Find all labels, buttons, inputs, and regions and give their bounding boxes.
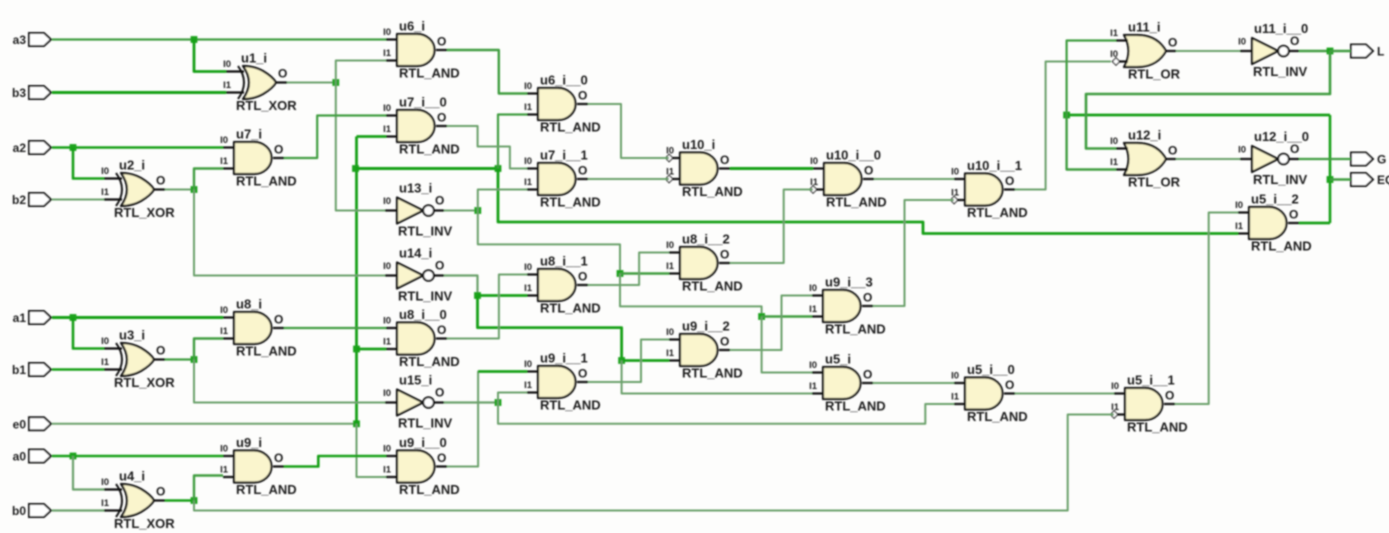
wire u10_i__1.O to u11_i.I0 — [1015, 62, 1111, 190]
svg-text:b3: b3 — [12, 86, 26, 100]
svg-text:e0: e0 — [13, 417, 27, 431]
svg-text:I0: I0 — [220, 135, 228, 146]
svg-text:I0: I0 — [1238, 37, 1246, 48]
junction u14 chain u8_i__1.I1 — [474, 292, 481, 299]
svg-text:I0: I0 — [383, 27, 391, 38]
wire u9_i__1.O to u9_i__2.I0 — [588, 340, 669, 383]
svg-text:O: O — [1168, 36, 1177, 50]
svg-text:u10_i: u10_i — [682, 137, 715, 152]
svg-text:O: O — [437, 35, 446, 49]
svg-text:RTL_AND: RTL_AND — [967, 409, 1028, 424]
svg-text:I0: I0 — [666, 327, 674, 338]
svg-text:u7_i__1: u7_i__1 — [540, 148, 588, 163]
svg-text:O: O — [274, 143, 283, 157]
wire u4_i.O long south run to u5_i__1.I1 — [194, 415, 1114, 511]
junction u13 chain u9_i__3.I1 — [758, 313, 765, 320]
svg-text:u5_i: u5_i — [825, 352, 851, 367]
wire u13 chain to u5_i.I0 — [762, 317, 812, 373]
wire EQ net up to u11_i.I1 — [1067, 41, 1116, 116]
svg-text:I1: I1 — [101, 498, 110, 509]
wire trunk lower vertical to u9_i__0.I1 — [357, 424, 387, 477]
svg-text:u5_i__0: u5_i__0 — [967, 362, 1015, 377]
and gate u5_i__2 — [1235, 192, 1312, 254]
svg-text:O: O — [720, 335, 729, 349]
svg-text:I0: I0 — [383, 103, 391, 114]
and gate u9_i__3 — [809, 275, 886, 337]
wire u4_i.O up to u9_i.I1 — [194, 476, 223, 501]
svg-text:O: O — [435, 194, 444, 208]
svg-text:RTL_AND: RTL_AND — [236, 482, 297, 497]
svg-text:u11_i__0: u11_i__0 — [1254, 21, 1308, 36]
svg-text:O: O — [1168, 144, 1177, 158]
svg-text:I1: I1 — [101, 357, 110, 368]
and gate u6_i__0 — [524, 73, 601, 135]
svg-text:I1: I1 — [666, 167, 675, 178]
svg-text:RTL_AND: RTL_AND — [1127, 420, 1188, 435]
svg-text:I0: I0 — [951, 167, 959, 178]
svg-text:u8_i__0: u8_i__0 — [399, 307, 447, 322]
wire L loopback to u12_i.I0 — [1086, 51, 1330, 149]
svg-text:u9_i__1: u9_i__1 — [540, 351, 588, 366]
wire b2 to u2_i.I1 — [52, 199, 104, 201]
svg-text:u9_i: u9_i — [236, 435, 262, 450]
svg-text:O: O — [437, 451, 446, 465]
svg-text:u11_i: u11_i — [1128, 20, 1161, 35]
wire u2_i.O down to u14_i.I0 — [194, 190, 385, 276]
svg-text:u6_i__0: u6_i__0 — [540, 73, 588, 88]
wire u13_i.O up to u7_i__1.I1 — [478, 190, 527, 211]
and gate u9_i__2 — [666, 319, 743, 381]
svg-text:I1: I1 — [101, 187, 110, 198]
xor gate u3_i (a1 XOR b1) — [101, 328, 175, 391]
inverter u15_i — [383, 373, 452, 431]
wire u6_i__0.O to u10_i.I0 — [588, 104, 669, 158]
svg-text:RTL_XOR: RTL_XOR — [114, 205, 175, 220]
junction u13_i.O — [474, 207, 481, 214]
and gate u8_i__1 — [524, 254, 601, 316]
svg-text:b1: b1 — [12, 363, 26, 377]
wire u5_i.O to u5_i__0.I0 — [873, 382, 954, 384]
wire to L port — [1330, 50, 1351, 52]
svg-text:RTL_INV: RTL_INV — [398, 224, 453, 239]
svg-text:I0: I0 — [383, 388, 391, 399]
svg-text:I1: I1 — [383, 124, 392, 135]
svg-text:I1: I1 — [220, 465, 229, 476]
and gate u10_i — [665, 137, 742, 199]
junction u1_i.O — [332, 79, 339, 86]
svg-text:RTL_INV: RTL_INV — [398, 416, 453, 431]
svg-text:O: O — [1290, 142, 1299, 156]
and gate u7_i__0 — [383, 95, 460, 157]
svg-text:O: O — [1290, 34, 1299, 48]
svg-text:RTL_XOR: RTL_XOR — [236, 98, 297, 113]
svg-text:RTL_AND: RTL_AND — [236, 344, 297, 359]
svg-text:I0: I0 — [383, 261, 391, 272]
svg-text:I0: I0 — [1235, 200, 1243, 211]
junction EQ net split — [1063, 112, 1070, 119]
svg-text:u7_i__0: u7_i__0 — [399, 95, 447, 110]
svg-text:RTL_AND: RTL_AND — [236, 174, 297, 189]
svg-text:u9_i__2: u9_i__2 — [682, 319, 730, 334]
svg-text:O: O — [578, 164, 587, 178]
junction a2 branch — [70, 144, 77, 151]
svg-text:I1: I1 — [383, 337, 392, 348]
svg-text:RTL_AND: RTL_AND — [540, 120, 601, 135]
wire u5_i__2.O east — [1299, 222, 1330, 225]
wire a0 to u9_i.I0 — [52, 455, 223, 458]
and gate u9_i__0 — [383, 435, 460, 497]
wire u8_i__1.O to u8_i__2.I0 — [588, 253, 669, 286]
and gate u5_i — [809, 352, 886, 414]
svg-text:u6_i: u6_i — [399, 19, 425, 34]
wire u11_i.O to u11_i__0.I0 — [1176, 50, 1240, 52]
wire u14 chain to u8_i__1.I1 — [478, 294, 528, 297]
junction u15_i.O — [495, 399, 502, 406]
output port EQ — [1351, 173, 1389, 187]
svg-text:I1: I1 — [524, 177, 533, 188]
inverter u11_i__0 — [1238, 21, 1308, 79]
output port L — [1351, 45, 1384, 59]
svg-text:b0: b0 — [12, 504, 26, 518]
wire u10_i.O to u10_i__0.I0 — [730, 167, 813, 170]
junction u4_i.O — [191, 497, 198, 504]
svg-text:I0: I0 — [383, 196, 391, 207]
wire u2_i.O up to u7_i.I1 — [194, 169, 223, 190]
junction trunk east — [495, 165, 502, 172]
junction a3 branch — [191, 36, 198, 43]
svg-text:I0: I0 — [666, 146, 674, 157]
wire u9_i__1.I0 thick segment — [478, 370, 527, 373]
input port e0 — [13, 417, 51, 431]
wire u9_i__3.O to u10_i__1.I1 — [873, 200, 954, 306]
svg-text:I1: I1 — [666, 261, 675, 272]
svg-text:I0: I0 — [809, 360, 817, 371]
svg-text:I0: I0 — [383, 444, 391, 455]
wire u2_i.O to junction — [165, 189, 194, 191]
svg-text:u5_i__1: u5_i__1 — [1127, 373, 1175, 388]
wire EQ net down to u12_i.I1 — [1067, 115, 1116, 170]
svg-text:u4_i: u4_i — [119, 469, 145, 484]
svg-text:I1: I1 — [1111, 402, 1120, 413]
wire e0 to equality trunk — [52, 423, 357, 425]
svg-text:u10_i__0: u10_i__0 — [826, 148, 881, 163]
xor gate u2_i (a2 XOR b2) — [101, 158, 175, 221]
svg-text:u13_i: u13_i — [399, 181, 432, 196]
svg-text:I1: I1 — [951, 188, 960, 199]
and gate u8_i — [220, 297, 297, 359]
wire u7_i__0.O to u7_i__1.I0 — [447, 126, 527, 169]
wire u15_i.O to u5_i__0.I1 — [498, 403, 954, 424]
svg-text:O: O — [863, 368, 872, 382]
svg-text:RTL_OR: RTL_OR — [1128, 175, 1181, 190]
svg-text:I0: I0 — [220, 305, 228, 316]
input port a2 — [13, 141, 51, 155]
svg-text:b2: b2 — [12, 193, 26, 207]
wire u8_i__2.O to u10_i__0.I1 — [730, 190, 813, 264]
svg-text:a0: a0 — [13, 450, 27, 464]
svg-text:I1: I1 — [220, 156, 229, 167]
wire u9_i.O to u9_i__0.I0 — [284, 456, 386, 467]
svg-text:RTL_AND: RTL_AND — [399, 66, 460, 81]
input port b2 — [12, 193, 51, 207]
svg-text:a2: a2 — [13, 141, 27, 155]
wire u13 chain to u8_i__2.I1 — [620, 272, 669, 274]
wire EQ net vertical — [1329, 115, 1332, 223]
wire b0 to u4_i.I1 — [52, 509, 104, 511]
wire u10_i__0.O to u10_i__1.I0 — [874, 178, 954, 180]
and gate u8_i__0 — [383, 307, 460, 369]
svg-text:RTL_AND: RTL_AND — [682, 366, 743, 381]
and gate u9_i__1 — [524, 351, 601, 413]
wire a1 to u8_i.I0 — [52, 316, 223, 319]
svg-text:u2_i: u2_i — [119, 158, 145, 173]
svg-text:RTL_AND: RTL_AND — [967, 205, 1028, 220]
wire u4_i.O to junction — [165, 499, 194, 502]
svg-text:O: O — [578, 89, 587, 103]
svg-text:O: O — [437, 111, 446, 125]
and gate u10_i__1 — [950, 158, 1027, 220]
and gate u6_i — [383, 19, 460, 81]
wire u6_i.O to u6_i__0.I0 — [447, 50, 527, 94]
svg-text:I1: I1 — [1110, 28, 1119, 39]
svg-text:I0: I0 — [223, 59, 231, 70]
svg-text:RTL_XOR: RTL_XOR — [114, 516, 175, 531]
inverter u12_i__0 — [1238, 129, 1309, 187]
and gate u5_i__1 — [1110, 373, 1187, 435]
wire u1_i.O down to u13_i.I0 — [336, 83, 385, 211]
svg-text:L: L — [1377, 45, 1384, 59]
svg-text:RTL_AND: RTL_AND — [399, 354, 460, 369]
junction L port — [1327, 48, 1334, 55]
junction trunk u8_i__0.I1 — [353, 346, 360, 353]
wire u8_i.O to u8_i__0.I0 — [284, 327, 386, 329]
wire u1_i.O up to u6_i.I1 — [336, 61, 386, 83]
svg-text:u7_i: u7_i — [236, 127, 262, 142]
svg-text:O: O — [720, 153, 729, 167]
wire trunk to u7_i__0.I1 — [357, 135, 387, 138]
junction u3_i.O — [191, 356, 198, 363]
wire to EQ port — [1330, 178, 1351, 180]
svg-text:O: O — [720, 248, 729, 262]
svg-text:O: O — [435, 386, 444, 400]
svg-text:RTL_AND: RTL_AND — [540, 301, 601, 316]
junction a0 branch — [70, 453, 77, 460]
svg-text:u12_i: u12_i — [1128, 128, 1161, 143]
svg-text:O: O — [1005, 378, 1014, 392]
wire trunk branch up to u6_i__0.I1 — [498, 115, 527, 169]
wire trunk south segment — [498, 169, 1238, 234]
junction u13 chain u8_i__2.I1 — [617, 270, 624, 277]
wire trunk to u8_i__0.I1 — [357, 348, 387, 351]
inverter u13_i — [383, 181, 452, 239]
wire u7_i.O to u7_i__0.I0 — [284, 116, 386, 159]
wire u14 chain to u9_i__2.I1 — [622, 359, 669, 362]
svg-text:I0: I0 — [524, 156, 532, 167]
svg-text:u9_i__3: u9_i__3 — [825, 275, 873, 290]
wire a3 branch down to u1_i.I0 — [194, 40, 226, 72]
wire u1_i.O to junction — [287, 82, 336, 84]
svg-text:I0: I0 — [101, 336, 109, 347]
svg-text:I0: I0 — [810, 156, 818, 167]
svg-text:I1: I1 — [383, 465, 392, 476]
wire u3_i.O up to u8_i.I1 — [194, 339, 223, 360]
svg-text:O: O — [274, 313, 283, 327]
wire u5_i__0.O to u5_i__1.I0 — [1015, 393, 1114, 395]
svg-text:RTL_OR: RTL_OR — [1128, 67, 1181, 82]
wire u7_i__1.O to u10_i.I1 — [588, 178, 669, 180]
input port b3 — [12, 86, 51, 100]
wire u8_i__0.O to u8_i__1.I0 — [447, 275, 527, 339]
svg-text:I1: I1 — [951, 392, 960, 403]
svg-text:O: O — [578, 367, 587, 381]
svg-text:I0: I0 — [524, 262, 532, 273]
junction EQ port tap — [1327, 176, 1334, 183]
wire u12_i.O to u12_i__0.I0 — [1176, 158, 1240, 160]
wire u3_i.O to junction — [165, 358, 194, 360]
svg-text:I0: I0 — [1111, 381, 1119, 392]
svg-text:O: O — [156, 344, 165, 358]
svg-text:I1: I1 — [810, 177, 819, 188]
svg-text:I0: I0 — [1238, 145, 1246, 156]
or gate u12_i — [1110, 128, 1181, 190]
junction u14 chain u9_i__2.I1 — [618, 357, 625, 364]
svg-text:RTL_AND: RTL_AND — [540, 195, 601, 210]
svg-text:I1: I1 — [524, 283, 533, 294]
xor gate u1_i (a3 XOR b3) — [223, 51, 297, 114]
and gate u9_i — [220, 435, 297, 497]
svg-text:O: O — [864, 164, 873, 178]
wire a0 branch down to u4_i.I0 — [73, 456, 104, 490]
output port G — [1351, 153, 1386, 167]
wire u13 chain to next junction — [620, 274, 762, 317]
and gate u7_i — [220, 127, 297, 189]
svg-text:u8_i: u8_i — [236, 297, 262, 312]
wire u11_i__0.O to junction — [1299, 50, 1330, 52]
wire a2 branch down to u2_i.I0 — [73, 148, 104, 179]
wire trunk horizontal y168 — [356, 167, 499, 170]
wire a1 branch down to u3_i.I0 — [73, 318, 104, 349]
wire u13 chain to u9_i__3.I1 — [762, 315, 812, 317]
svg-text:EQ: EQ — [1377, 173, 1389, 187]
wire u14 chain east run — [478, 296, 622, 361]
and gate u8_i__2 — [666, 232, 743, 294]
svg-text:u5_i__2: u5_i__2 — [1251, 192, 1299, 207]
wire EQ net west run — [1067, 114, 1330, 117]
svg-text:RTL_INV: RTL_INV — [398, 289, 453, 304]
wire b3 to u1_i.I1 — [52, 91, 226, 94]
input port b1 — [12, 363, 51, 377]
svg-text:I1: I1 — [383, 48, 392, 59]
wire u9_i__0.O to u9_i__1.I0 — [447, 372, 527, 467]
svg-text:I1: I1 — [809, 304, 818, 315]
svg-text:O: O — [863, 291, 872, 305]
svg-text:I1: I1 — [524, 102, 533, 113]
xor gate u4_i (a0 XOR b0) — [101, 469, 175, 532]
svg-text:RTL_XOR: RTL_XOR — [114, 375, 175, 390]
junction trunk main — [352, 165, 359, 172]
svg-text:u9_i__0: u9_i__0 — [399, 435, 447, 450]
and gate u5_i__0 — [951, 362, 1028, 424]
svg-text:I0: I0 — [1110, 136, 1118, 147]
svg-text:O: O — [578, 270, 587, 284]
junction u2_i.O — [191, 186, 198, 193]
input port a1 — [13, 311, 51, 325]
wire a3 to u6_i.I0 — [52, 38, 386, 40]
wire a2 to u7_i.I0 — [52, 146, 223, 149]
input port a3 — [13, 33, 51, 47]
svg-text:I1: I1 — [1110, 157, 1119, 168]
svg-text:I0: I0 — [101, 166, 109, 177]
svg-text:O: O — [278, 67, 287, 81]
svg-text:O: O — [274, 451, 283, 465]
svg-text:I0: I0 — [524, 81, 532, 92]
junction a1 branch — [70, 314, 77, 321]
svg-text:O: O — [435, 259, 444, 273]
svg-text:O: O — [437, 323, 446, 337]
wire u13_i.O to junction — [444, 210, 478, 212]
svg-text:a3: a3 — [13, 33, 27, 47]
junction e0 on trunk — [353, 420, 360, 427]
wire u14 chain to u5_i.I1 — [622, 361, 812, 394]
svg-text:RTL_AND: RTL_AND — [825, 399, 886, 414]
svg-text:u10_i__1: u10_i__1 — [967, 158, 1022, 173]
and gate u10_i__0 — [809, 148, 886, 210]
wire u3_i.O down to u15_i.I0 — [194, 360, 385, 403]
svg-text:RTL_INV: RTL_INV — [1253, 172, 1308, 187]
svg-text:I0: I0 — [809, 283, 817, 294]
svg-text:u1_i: u1_i — [241, 51, 267, 66]
svg-text:RTL_AND: RTL_AND — [682, 279, 743, 294]
svg-text:u14_i: u14_i — [399, 246, 432, 261]
svg-text:u8_i__2: u8_i__2 — [682, 232, 730, 247]
svg-text:I1: I1 — [223, 80, 232, 91]
wire u13_i.O chain south — [478, 211, 620, 274]
svg-text:I0: I0 — [383, 316, 391, 327]
wire trunk vertical x356 — [355, 137, 358, 424]
svg-text:O: O — [1165, 389, 1174, 403]
svg-text:u8_i__1: u8_i__1 — [540, 254, 588, 269]
svg-text:RTL_INV: RTL_INV — [1253, 64, 1308, 79]
svg-text:RTL_AND: RTL_AND — [1251, 239, 1312, 254]
svg-text:RTL_AND: RTL_AND — [825, 322, 886, 337]
svg-text:G: G — [1377, 153, 1386, 167]
wire u9_i__2.O to u9_i__3.I0 — [730, 296, 812, 351]
input port b0 — [12, 504, 51, 518]
svg-text:O: O — [1289, 208, 1298, 222]
svg-text:RTL_AND: RTL_AND — [682, 184, 743, 199]
svg-text:O: O — [156, 174, 165, 188]
or gate u11_i — [1110, 20, 1181, 82]
svg-text:I0: I0 — [101, 477, 109, 488]
svg-text:I1: I1 — [220, 326, 229, 337]
svg-text:I0: I0 — [951, 371, 959, 382]
svg-text:I1: I1 — [524, 380, 533, 391]
svg-text:I0: I0 — [524, 359, 532, 370]
svg-text:u3_i: u3_i — [119, 328, 145, 343]
svg-text:I1: I1 — [666, 348, 675, 359]
wire u15_i.O to junction — [444, 401, 498, 403]
svg-text:RTL_AND: RTL_AND — [399, 482, 460, 497]
svg-text:I0: I0 — [1110, 49, 1118, 60]
wire u12_i__0.O to G port — [1299, 158, 1351, 160]
wire u15_i.O up to u9_i__1.I1 — [498, 393, 527, 403]
svg-text:u12_i__0: u12_i__0 — [1254, 129, 1309, 144]
svg-text:O: O — [156, 485, 165, 499]
inverter u14_i — [383, 246, 452, 304]
svg-text:u15_i: u15_i — [399, 373, 432, 388]
input port a0 — [13, 450, 51, 464]
wire u14_i.O to chain — [444, 276, 478, 296]
